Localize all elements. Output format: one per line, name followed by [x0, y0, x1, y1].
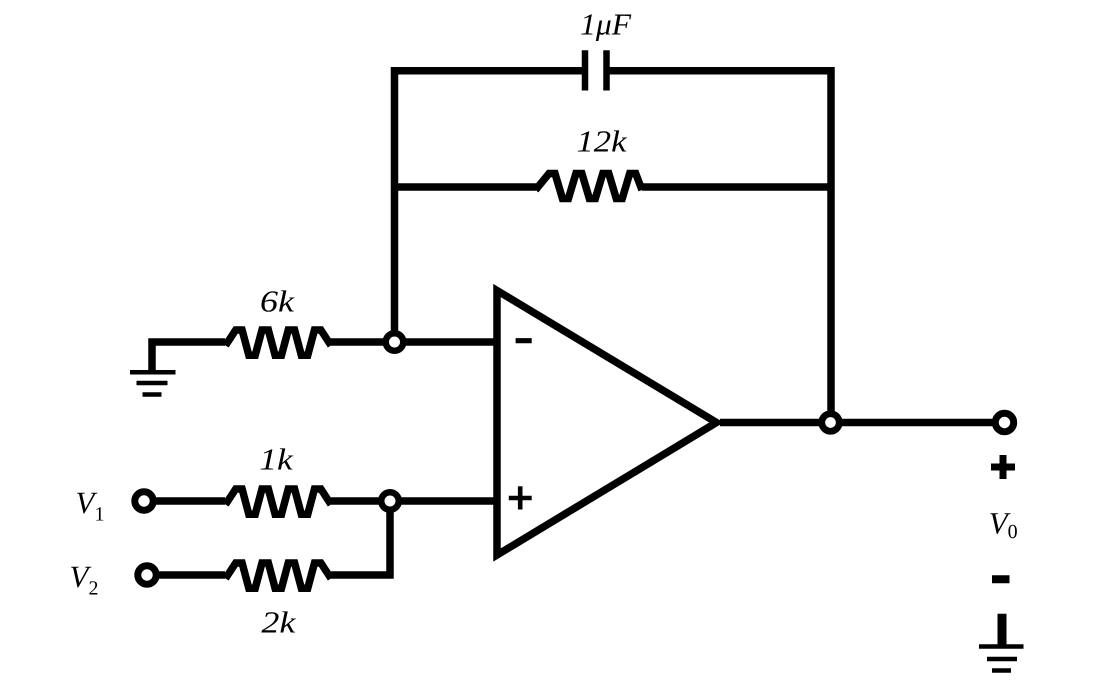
wire ground to 6k resistor	[152, 342, 225, 371]
wire 12k left lead	[395, 183, 537, 191]
wire 1k to non-inverting node	[331, 497, 390, 505]
wire feedback right branch (cap to output node)	[607, 71, 832, 423]
svg-text:6k: 6k	[260, 284, 295, 318]
node output	[822, 414, 840, 432]
ground (right)	[979, 614, 1024, 671]
ground (left)	[130, 372, 176, 394]
terminal V2	[138, 566, 156, 584]
wire inverting input	[395, 338, 498, 346]
label minus at V0	[992, 575, 1010, 583]
wire 2k to non-inverting node	[331, 501, 390, 575]
resistor R 2k	[226, 563, 332, 588]
wire 12k right lead	[642, 183, 831, 191]
resistor R 12k	[536, 174, 643, 199]
wire V1 lead	[153, 497, 225, 505]
svg-text:12k: 12k	[577, 125, 628, 159]
wire feedback left branch (node to top)	[395, 71, 586, 342]
wire output	[720, 419, 995, 427]
wire non-inverting input	[390, 497, 497, 505]
resistor R 1k	[226, 489, 332, 514]
resistor R 6k	[226, 330, 332, 355]
terminal V1	[135, 492, 153, 510]
node inverting input	[386, 333, 404, 351]
wire V2 lead	[156, 571, 225, 579]
op-amp plus marking	[509, 486, 532, 509]
capacitor C 1uF plates	[585, 50, 607, 90]
label plus at V0	[991, 455, 1015, 479]
svg-text:1k: 1k	[259, 442, 293, 476]
op-amp minus marking	[516, 338, 532, 343]
terminal V0	[995, 413, 1013, 431]
svg-text:1μF: 1μF	[580, 8, 631, 42]
node non-inverting input	[381, 492, 399, 510]
svg-text:2k: 2k	[261, 606, 296, 640]
wire 6k to inverting node	[331, 338, 395, 346]
op-amp U1 triangle	[497, 291, 717, 556]
